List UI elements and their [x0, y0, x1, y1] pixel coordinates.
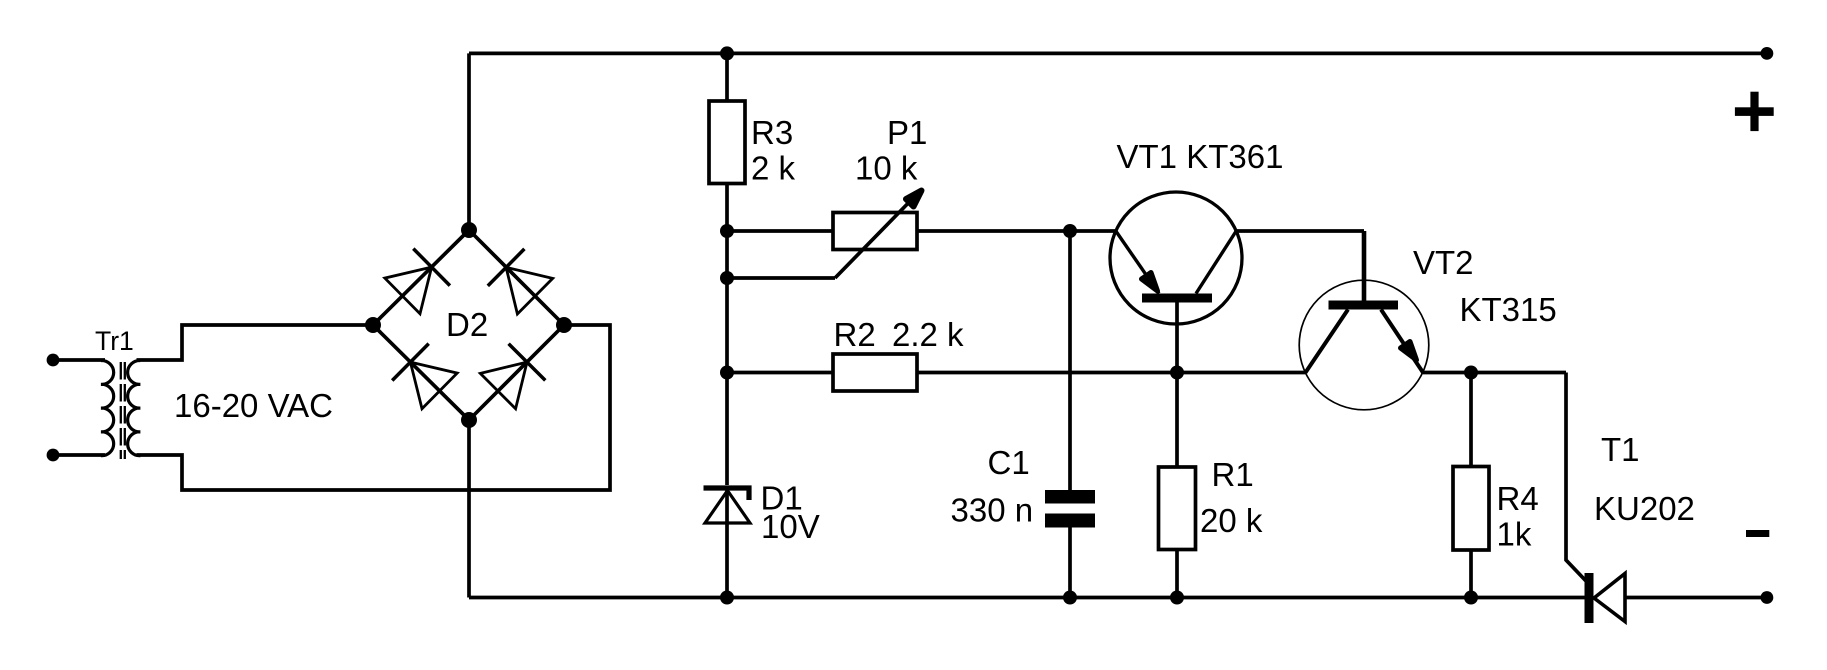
svg-text:10 k: 10 k: [855, 150, 918, 187]
plus sign: [1735, 92, 1774, 131]
node junction VT1 base / R1: [1170, 366, 1184, 380]
wire R4 top lead: [1469, 373, 1473, 467]
node bridge left: [365, 317, 381, 333]
svg-text:1k: 1k: [1497, 516, 1532, 553]
wire x727 column R3 to D1: [725, 184, 729, 486]
wire top rail (+): [469, 52, 1767, 56]
wire bridge bottom node down to bottom rail: [467, 420, 471, 598]
diode D2d (bottom-right arm): [480, 344, 545, 409]
node junction bottom rail R4: [1464, 591, 1478, 605]
wire D1 to bottom rail: [725, 490, 729, 598]
potentiometer P1 wiper arrow shaft: [835, 190, 921, 278]
potentiometer P1 wiper arrowhead: [906, 191, 922, 207]
zener D1 triangle: [705, 491, 750, 524]
terminal dot + output: [1761, 47, 1774, 60]
wire T1 gate: [1566, 373, 1586, 582]
svg-text:16-20 VAC: 16-20 VAC: [174, 387, 333, 424]
svg-text:330 n: 330 n: [951, 492, 1034, 529]
svg-text:R4: R4: [1497, 480, 1539, 517]
node junction bottom rail x727: [720, 591, 734, 605]
diode D2a (left-top arm): [385, 249, 450, 314]
wire R2 left lead: [727, 371, 833, 375]
svg-text:P1: P1: [887, 114, 927, 151]
node junction bottom rail C1: [1063, 591, 1077, 605]
capacitor C1 top plate: [1045, 490, 1095, 504]
wire C1 top lead: [1068, 231, 1072, 490]
node junction wiper tap: [720, 271, 734, 285]
wire VT2 emitter to gate corner: [1423, 371, 1566, 375]
wire VT1 collector to VT2 base: [1236, 229, 1364, 233]
svg-text:R1: R1: [1212, 456, 1254, 493]
minus sign: [1746, 530, 1769, 537]
transistor VT1 circle: [1110, 192, 1242, 324]
wire Tr1 primary bottom lead: [53, 453, 105, 457]
svg-text:2.2 k: 2.2 k: [892, 316, 964, 353]
wire Tr1 secondary top lead to bridge left node: [137, 325, 374, 360]
svg-text:2 k: 2 k: [751, 150, 796, 187]
svg-text:R3: R3: [751, 114, 793, 151]
svg-text:R2: R2: [834, 316, 876, 353]
wire R2 right lead to VT2 collector: [917, 371, 1306, 375]
transformer Tr1 secondary winding: [128, 361, 141, 456]
wire R1 top lead: [1175, 373, 1179, 468]
wire Tr1 secondary bottom lead loop to bridge right node: [137, 325, 611, 490]
bridge D2 arm top-right: [469, 230, 564, 325]
svg-text:VT2: VT2: [1413, 244, 1474, 281]
diode D2b (right-top arm): [488, 249, 553, 314]
node bridge top: [461, 222, 477, 238]
bridge D2 arm top-left: [373, 230, 469, 325]
diode D2c (bottom-left arm): [392, 344, 457, 409]
svg-text:KU202: KU202: [1594, 490, 1695, 527]
resistor R2: [833, 354, 917, 391]
svg-text:D2: D2: [446, 306, 488, 343]
wire C1 bottom lead: [1068, 528, 1072, 598]
svg-text:KT315: KT315: [1460, 291, 1557, 328]
node bridge right: [556, 317, 572, 333]
terminal dot - output: [1761, 591, 1774, 604]
wire P1 wiper horizontal: [727, 276, 835, 280]
transistor VT2 emitter arrowhead (NPN, points out): [1401, 342, 1417, 361]
resistor R4: [1453, 467, 1489, 551]
thyristor T1 triangle: [1594, 574, 1625, 622]
wire bridge top node to top rail: [467, 53, 471, 232]
potentiometer P1 body: [833, 213, 917, 250]
transistor VT2 circle: [1299, 280, 1429, 410]
wire VT1 base lead down: [1175, 303, 1179, 373]
bridge D2 arm bottom-left: [373, 325, 469, 420]
transistor VT2 collector diagonal: [1306, 310, 1349, 373]
node junction dot top rail / R3: [720, 46, 734, 60]
node junction R2 line: [720, 366, 734, 380]
node junction P1 top tap: [720, 224, 734, 238]
transformer Tr1 primary terminal dots: [47, 354, 60, 367]
transistor VT1 emitter diagonal: [1116, 231, 1159, 294]
wire R4 bottom lead: [1469, 550, 1473, 598]
resistor R1: [1159, 467, 1196, 550]
transistor VT1 base bar: [1142, 294, 1212, 303]
resistor R3: [709, 101, 745, 184]
node bridge bottom: [461, 412, 477, 428]
bridge D2 arm bottom-right: [469, 325, 564, 420]
wire P1 left lead: [727, 229, 833, 233]
wire bottom rail left section: [469, 596, 1585, 600]
zener D1 cathode bar with hook: [704, 488, 750, 500]
thyristor T1 cathode bar: [1585, 573, 1594, 623]
transformer Tr1 primary winding: [101, 361, 114, 456]
svg-text:C1: C1: [988, 444, 1030, 481]
wire R1 bottom lead: [1175, 550, 1179, 598]
wire P1 right lead to VT1: [917, 229, 1116, 233]
wire bottom rail right section: [1625, 596, 1767, 600]
svg-text:20 k: 20 k: [1200, 502, 1263, 539]
transistor VT2 emitter diagonal: [1381, 310, 1423, 373]
node junction bottom rail R1: [1170, 591, 1184, 605]
svg-text:Tr1: Tr1: [95, 326, 134, 356]
wire R3 top lead: [725, 53, 729, 101]
transistor VT2 base bar: [1329, 301, 1399, 310]
transformer Tr1 core: [120, 362, 122, 459]
svg-text:VT1 KT361: VT1 KT361: [1117, 138, 1284, 175]
capacitor C1 bottom plate: [1045, 514, 1095, 528]
svg-text:T1: T1: [1601, 431, 1640, 468]
node junction C1 top: [1063, 224, 1077, 238]
svg-text:10V: 10V: [761, 508, 820, 545]
node junction R4 top: [1464, 366, 1478, 380]
transistor VT1 emitter arrowhead (PNP, points to base): [1142, 273, 1158, 292]
transistor VT1 collector diagonal: [1196, 231, 1236, 294]
wire VT2 base vertical lead: [1362, 231, 1367, 301]
wire Tr1 primary top lead: [53, 358, 105, 362]
